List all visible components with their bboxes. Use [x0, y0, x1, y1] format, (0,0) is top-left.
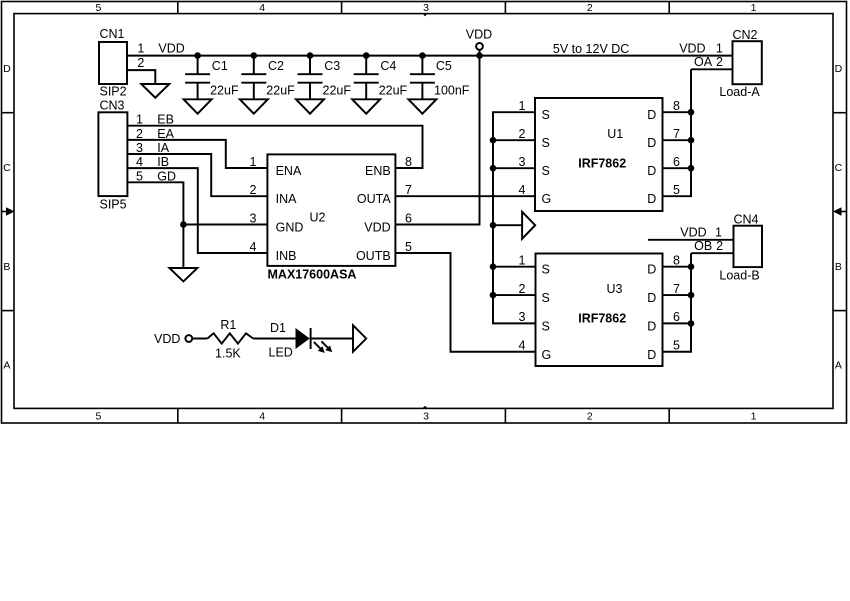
svg-text:6: 6	[673, 155, 680, 169]
svg-text:C2: C2	[268, 59, 284, 73]
svg-text:1: 1	[751, 410, 757, 422]
svg-text:D: D	[835, 63, 843, 75]
svg-text:A: A	[3, 360, 10, 372]
svg-text:4: 4	[136, 155, 143, 169]
svg-text:VDD: VDD	[679, 42, 705, 56]
junction VDD port	[476, 52, 483, 59]
svg-text:5: 5	[673, 183, 680, 197]
svg-text:S: S	[542, 108, 550, 122]
wire source bus	[493, 112, 536, 323]
svg-text:3: 3	[519, 155, 526, 169]
svg-text:A: A	[835, 360, 842, 372]
wire IA (CN3 pin3 to U2 INA)	[127, 154, 267, 196]
junction C5/VDD	[419, 52, 426, 59]
svg-text:4: 4	[519, 339, 526, 353]
connector CN1	[99, 27, 144, 98]
wire OUTB to U3 gate	[395, 253, 535, 352]
wire EA (CN3 pin2 to U2 ENA)	[127, 140, 267, 168]
junction S bus U3 pin2	[490, 292, 497, 299]
svg-text:22uF: 22uF	[323, 83, 352, 97]
svg-text:B: B	[3, 261, 10, 273]
svg-text:EA: EA	[157, 127, 174, 141]
svg-text:S: S	[542, 164, 550, 178]
svg-text:C4: C4	[380, 59, 396, 73]
wire IB (CN3 pin4 to U2 INB)	[127, 168, 267, 253]
capacitor C1	[185, 56, 239, 100]
svg-text:3: 3	[250, 211, 257, 225]
wire U3 drain bus	[663, 253, 692, 352]
svg-text:8: 8	[673, 99, 680, 113]
svg-text:OB: OB	[694, 239, 712, 253]
svg-text:R1: R1	[220, 318, 236, 332]
connector CN4	[715, 213, 762, 283]
ground (U2 GND)	[169, 268, 197, 281]
junction C1/VDD	[194, 52, 201, 59]
ground (C5)	[408, 99, 436, 113]
junction D bus U1 pin6	[688, 165, 695, 172]
svg-text:22uF: 22uF	[266, 83, 295, 97]
svg-text:4: 4	[519, 183, 526, 197]
wire GD (CN3 pin5 to ground)	[127, 182, 183, 268]
svg-text:1: 1	[519, 99, 526, 113]
junction GD	[180, 221, 187, 228]
wire VDD to R1	[192, 338, 207, 340]
svg-text:CN1: CN1	[100, 27, 125, 41]
svg-text:SIP2: SIP2	[100, 84, 127, 98]
capacitor C4	[354, 56, 408, 100]
wire U1 S pin2 stub	[493, 139, 535, 141]
wire D1 to net arrow	[311, 338, 353, 340]
svg-text:CN2: CN2	[733, 28, 758, 42]
wire EB (CN3 pin1 to U2 ENB)	[127, 126, 422, 168]
junction S bus pin2	[490, 137, 497, 144]
ground (C2)	[240, 99, 268, 113]
connector CN2	[716, 28, 762, 99]
wire U1 S pin3 stub	[493, 167, 535, 169]
svg-text:ENB: ENB	[365, 164, 391, 178]
svg-text:S: S	[542, 291, 550, 305]
driver IC U2	[267, 154, 395, 266]
svg-text:2: 2	[250, 183, 257, 197]
svg-text:Load-A: Load-A	[719, 85, 760, 99]
svg-text:6: 6	[405, 211, 412, 225]
svg-text:D: D	[647, 108, 656, 122]
svg-text:D1: D1	[270, 321, 286, 335]
mosfet U3	[536, 254, 663, 367]
svg-text:5: 5	[95, 2, 101, 14]
junction D bus U1 pin7	[688, 137, 695, 144]
svg-text:D: D	[647, 164, 656, 178]
svg-text:C3: C3	[324, 59, 340, 73]
svg-text:MAX17600ASA: MAX17600ASA	[268, 268, 357, 282]
wire U1 drain bus	[663, 69, 692, 196]
ground (C1)	[184, 99, 212, 113]
svg-text:C5: C5	[436, 59, 452, 73]
svg-text:VDD: VDD	[158, 42, 184, 56]
svg-text:U2: U2	[310, 211, 326, 225]
wire OB to CN4	[691, 252, 734, 254]
junction D bus U3 pin6	[688, 320, 695, 327]
svg-text:1.5K: 1.5K	[215, 347, 241, 361]
svg-text:D: D	[3, 63, 11, 75]
wire stub to net arrow	[493, 224, 522, 226]
power port VDD (rail)	[466, 27, 492, 55]
junction D bus U3 pin7	[688, 292, 695, 299]
connector CN3	[98, 98, 143, 211]
svg-text:8: 8	[673, 254, 680, 268]
svg-text:8: 8	[405, 155, 412, 169]
resistor R1	[207, 333, 253, 343]
svg-text:S: S	[542, 319, 550, 333]
junction D bus U3 pin8	[688, 263, 695, 270]
svg-text:OUTA: OUTA	[357, 192, 391, 206]
ground (CN1 pin 2)	[141, 84, 169, 98]
svg-text:GD: GD	[157, 169, 176, 183]
svg-text:1: 1	[715, 226, 722, 240]
svg-text:7: 7	[405, 183, 412, 197]
svg-text:5: 5	[95, 410, 101, 422]
svg-text:3: 3	[423, 410, 429, 422]
svg-text:5: 5	[405, 240, 412, 254]
svg-text:5V to 12V DC: 5V to 12V DC	[553, 42, 629, 56]
svg-text:7: 7	[673, 282, 680, 296]
net arrow (LED)	[353, 325, 366, 352]
junction S bus U3 pin1	[490, 263, 497, 270]
svg-text:22uF: 22uF	[210, 83, 239, 97]
svg-text:4: 4	[250, 240, 257, 254]
wire CN1 pin2 to ground	[127, 70, 155, 84]
svg-text:2: 2	[716, 55, 723, 69]
svg-text:B: B	[835, 261, 842, 273]
svg-text:SIP5: SIP5	[100, 197, 127, 211]
svg-text:D: D	[647, 263, 656, 277]
svg-text:D: D	[647, 291, 656, 305]
svg-text:4: 4	[259, 410, 265, 422]
svg-text:OA: OA	[694, 55, 713, 69]
svg-text:G: G	[542, 348, 552, 362]
svg-text:ENA: ENA	[276, 164, 302, 178]
svg-text:D: D	[647, 348, 656, 362]
junction C3/VDD	[307, 52, 314, 59]
svg-text:CN3: CN3	[100, 98, 125, 112]
wire R1 to D1	[253, 338, 295, 340]
junction S bus pin3	[490, 165, 497, 172]
wire VDD stub to CN4	[648, 239, 734, 241]
svg-text:U3: U3	[607, 282, 623, 296]
svg-text:VDD: VDD	[154, 332, 180, 346]
svg-text:1: 1	[716, 42, 723, 56]
svg-text:IA: IA	[157, 141, 169, 155]
svg-text:IRF7862: IRF7862	[578, 312, 626, 326]
svg-text:LED: LED	[269, 346, 293, 360]
svg-text:1: 1	[751, 2, 757, 14]
svg-text:C1: C1	[212, 59, 228, 73]
junction C4/VDD	[363, 52, 370, 59]
junction S bus arrow	[490, 222, 497, 229]
LED D1	[296, 328, 333, 353]
svg-text:1: 1	[250, 155, 257, 169]
svg-text:100nF: 100nF	[434, 83, 470, 97]
power port VDD (LED branch)	[154, 332, 192, 346]
svg-text:1: 1	[137, 42, 144, 56]
svg-text:INA: INA	[276, 192, 298, 206]
svg-text:5: 5	[673, 339, 680, 353]
svg-text:3: 3	[136, 141, 143, 155]
wire VDD rail to U2 VDD pin 6	[395, 56, 479, 225]
svg-text:5: 5	[136, 169, 143, 183]
svg-text:3: 3	[519, 310, 526, 324]
svg-text:2: 2	[136, 127, 143, 141]
svg-text:D: D	[647, 319, 656, 333]
frame (decorative)	[2, 2, 847, 424]
mosfet U1	[535, 98, 663, 211]
svg-text:2: 2	[587, 410, 593, 422]
svg-text:D: D	[647, 136, 656, 150]
svg-text:3: 3	[423, 2, 429, 14]
svg-text:22uF: 22uF	[379, 83, 408, 97]
svg-text:G: G	[542, 192, 552, 206]
svg-text:2: 2	[519, 282, 526, 296]
svg-text:D: D	[647, 192, 656, 206]
svg-text:GND: GND	[276, 221, 304, 235]
svg-text:2: 2	[716, 239, 723, 253]
svg-text:IB: IB	[157, 155, 169, 169]
capacitor C5	[410, 56, 470, 100]
svg-text:2: 2	[137, 56, 144, 70]
svg-text:VDD: VDD	[364, 221, 390, 235]
svg-text:Load-B: Load-B	[719, 268, 759, 282]
svg-text:CN4: CN4	[734, 213, 759, 227]
svg-text:VDD: VDD	[466, 27, 492, 41]
wire OUTA to U1 gate	[395, 195, 535, 197]
svg-text:EB: EB	[157, 113, 174, 127]
svg-text:INB: INB	[276, 249, 297, 263]
wire OA to CN2	[691, 68, 733, 70]
wire U3 S pin2 stub	[493, 294, 536, 296]
wire U3 S pin1 stub	[493, 266, 536, 268]
svg-text:6: 6	[673, 310, 680, 324]
svg-text:2: 2	[587, 2, 593, 14]
svg-text:7: 7	[673, 127, 680, 141]
svg-text:U1: U1	[607, 127, 623, 141]
svg-text:1: 1	[519, 254, 526, 268]
ground (C4)	[352, 99, 380, 113]
svg-text:OUTB: OUTB	[356, 249, 391, 263]
junction C2/VDD	[251, 52, 258, 59]
svg-text:C: C	[835, 162, 843, 174]
svg-text:4: 4	[259, 2, 265, 14]
svg-text:1: 1	[136, 113, 143, 127]
svg-text:C: C	[3, 162, 11, 174]
net arrow (sources)	[522, 212, 535, 239]
svg-text:2: 2	[519, 127, 526, 141]
ground (C3)	[296, 99, 324, 113]
svg-text:S: S	[542, 136, 550, 150]
wire GND branch to U2 pin3	[183, 224, 267, 226]
svg-text:S: S	[542, 263, 550, 277]
capacitor C3	[298, 56, 352, 100]
junction D bus U1 pin8	[688, 109, 695, 116]
svg-text:VDD: VDD	[680, 226, 706, 240]
svg-text:IRF7862: IRF7862	[578, 157, 626, 171]
capacitor C2	[241, 56, 295, 100]
wire VDD rail	[127, 55, 733, 57]
